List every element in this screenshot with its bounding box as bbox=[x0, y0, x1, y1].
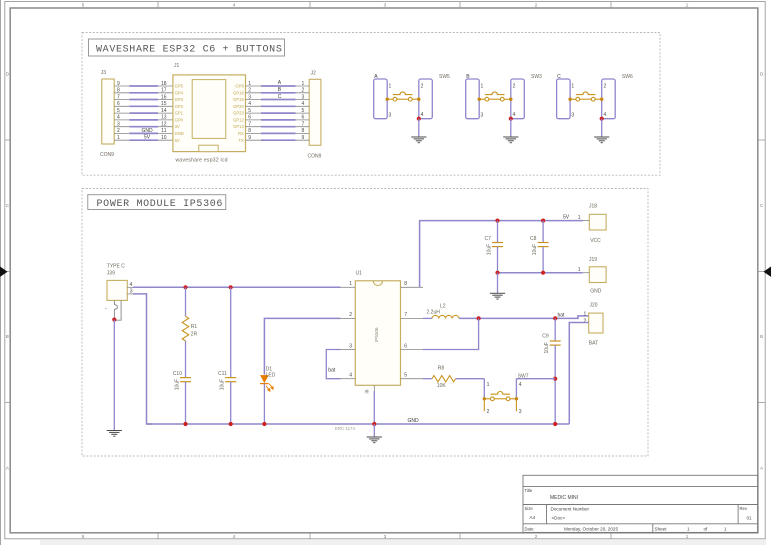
wire J1-7 to J2-7 bbox=[246, 122, 310, 128]
junction C11/GND rail bbox=[229, 422, 233, 426]
svg-text:2: 2 bbox=[487, 409, 490, 415]
svg-text:A: A bbox=[6, 465, 9, 470]
left centering mark bbox=[0, 267, 8, 277]
wire C7 branch bbox=[497, 221, 499, 243]
wire SW6 to ground bbox=[601, 119, 603, 137]
module J1 waveshare esp32 lcd bbox=[173, 63, 246, 164]
wire J3-4 to J1-13 bbox=[114, 115, 173, 121]
svg-text:10uF: 10uF bbox=[544, 342, 550, 353]
wire C8 branch bbox=[542, 221, 544, 243]
ground (SW3) bbox=[503, 137, 518, 143]
svg-text:J3: J3 bbox=[101, 70, 107, 76]
J1 right pin labels bbox=[233, 84, 244, 143]
svg-text:4: 4 bbox=[117, 115, 120, 121]
svg-text:10: 10 bbox=[161, 135, 167, 141]
svg-text:4: 4 bbox=[513, 112, 516, 118]
svg-text:11: 11 bbox=[161, 128, 166, 134]
svg-text:SW6: SW6 bbox=[622, 74, 633, 80]
wire bat to C9 bbox=[554, 318, 556, 341]
wire J3-3 to J1-12 bbox=[114, 122, 173, 128]
wire SW5 to ground bbox=[418, 119, 420, 137]
svg-text:SW5: SW5 bbox=[439, 74, 450, 80]
junction C8/cap rail bbox=[541, 271, 545, 275]
svg-text:Rev: Rev bbox=[740, 506, 748, 511]
junction top rail / R1 bbox=[183, 285, 187, 289]
svg-text:3: 3 bbox=[481, 112, 484, 118]
GND bottom rail bbox=[147, 423, 570, 425]
svg-text:5: 5 bbox=[248, 108, 251, 114]
title block bbox=[523, 475, 758, 532]
svg-text:Sheet: Sheet bbox=[655, 526, 668, 531]
wire D1 to GND rail bbox=[263, 384, 265, 424]
wire J3-9 to J1-18 bbox=[114, 81, 173, 87]
wire J3-5 to J1-14 bbox=[114, 108, 173, 114]
svg-text:1: 1 bbox=[117, 135, 120, 141]
svg-text:R1: R1 bbox=[191, 324, 198, 330]
svg-text:Date:: Date: bbox=[525, 526, 535, 531]
svg-text:1: 1 bbox=[487, 382, 490, 388]
wire C8 to cap rail bbox=[542, 247, 544, 273]
frame row letters bbox=[6, 72, 764, 471]
svg-text:3V: 3V bbox=[175, 124, 180, 129]
svg-text:2: 2 bbox=[349, 312, 352, 318]
svg-text:8: 8 bbox=[117, 88, 120, 94]
svg-text:9: 9 bbox=[248, 135, 251, 141]
svg-text:GP0: GP0 bbox=[175, 118, 184, 123]
svg-text:2: 2 bbox=[302, 88, 305, 94]
section 2 title box bbox=[88, 195, 226, 210]
svg-text:B: B bbox=[6, 334, 9, 339]
svg-text:8: 8 bbox=[404, 281, 407, 287]
wire C7 to cap rail bbox=[497, 247, 499, 273]
svg-text:ERC 1174: ERC 1174 bbox=[335, 426, 355, 431]
svg-text:1: 1 bbox=[248, 81, 251, 87]
svg-text:U1: U1 bbox=[356, 270, 363, 276]
wire J3-2 to J1-11 bbox=[114, 128, 173, 134]
wire C11 branch bbox=[230, 287, 232, 377]
wire J1-9 to J2-9 bbox=[246, 135, 310, 141]
wire J3-7 to J1-16 bbox=[114, 94, 173, 100]
svg-text:8: 8 bbox=[248, 128, 251, 134]
svg-text:4: 4 bbox=[248, 101, 251, 107]
svg-text:5: 5 bbox=[404, 373, 407, 379]
IC U1 IP5306 bbox=[341, 270, 423, 393]
svg-text:10uF: 10uF bbox=[486, 244, 492, 255]
svg-text:TYPE C: TYPE C bbox=[107, 263, 125, 269]
wire J3-8 to J1-17 bbox=[114, 88, 173, 94]
connector J39 TYPE C bbox=[104, 263, 133, 320]
svg-text:5V: 5V bbox=[563, 215, 570, 221]
svg-text:J20: J20 bbox=[590, 302, 598, 308]
connector J18 bbox=[578, 204, 606, 244]
svg-text:GP18: GP18 bbox=[233, 90, 244, 95]
wire cap rail to ground bbox=[497, 273, 499, 294]
svg-text:3: 3 bbox=[117, 122, 120, 128]
svg-text:L2: L2 bbox=[440, 303, 446, 309]
svg-text:6: 6 bbox=[248, 115, 251, 121]
wire GND rail stub to ground symbol bbox=[373, 424, 375, 437]
svg-text:6: 6 bbox=[404, 343, 407, 349]
junction bat/pin6 bbox=[477, 316, 481, 320]
section box: POWER MODULE IP5306 bbox=[82, 189, 648, 457]
svg-text:4: 4 bbox=[349, 373, 352, 379]
svg-text:10K: 10K bbox=[437, 383, 447, 389]
svg-text:1: 1 bbox=[687, 526, 690, 531]
resistor R1 bbox=[182, 316, 197, 341]
svg-text:GP2: GP2 bbox=[175, 104, 184, 109]
svg-text:2: 2 bbox=[604, 83, 607, 89]
wire J1-8 to J2-8 bbox=[246, 128, 310, 134]
svg-text:GND: GND bbox=[408, 418, 420, 424]
svg-text:5: 5 bbox=[302, 108, 305, 114]
svg-text:A4: A4 bbox=[530, 515, 536, 520]
section 1 title box bbox=[89, 39, 285, 56]
svg-text:17: 17 bbox=[161, 88, 167, 94]
svg-text:<Doc>: <Doc> bbox=[552, 515, 566, 520]
svg-text:C11: C11 bbox=[218, 371, 227, 377]
svg-text:GP20: GP20 bbox=[233, 104, 244, 109]
svg-text:10uF: 10uF bbox=[220, 379, 226, 390]
svg-text:Size: Size bbox=[525, 506, 534, 511]
svg-text:GP5: GP5 bbox=[175, 84, 184, 89]
ground (TYPE C) bbox=[107, 431, 122, 437]
svg-text:1: 1 bbox=[571, 83, 574, 89]
svg-text:2: 2 bbox=[248, 88, 251, 94]
svg-text:BAT: BAT bbox=[589, 341, 598, 347]
wire J1-2 to J2-2 bbox=[246, 88, 310, 94]
svg-text:9: 9 bbox=[117, 81, 120, 87]
pushbutton SW7 bbox=[483, 373, 529, 415]
svg-text:C8: C8 bbox=[530, 236, 537, 242]
svg-text:GND: GND bbox=[175, 131, 184, 136]
inductor L2 bbox=[427, 303, 460, 318]
svg-text:1: 1 bbox=[349, 281, 352, 287]
svg-text:D1: D1 bbox=[266, 366, 273, 372]
wire J1-1 to J2-1 bbox=[246, 81, 310, 87]
svg-text:GP1: GP1 bbox=[175, 111, 184, 116]
svg-text:1: 1 bbox=[578, 267, 581, 273]
svg-text:2: 2 bbox=[513, 83, 516, 89]
svg-text:3: 3 bbox=[248, 94, 251, 100]
wire U1-8 to 5V rail bbox=[420, 221, 583, 288]
svg-text:C10: C10 bbox=[173, 371, 182, 377]
frame column numbers bbox=[82, 3, 689, 539]
svg-text:2: 2 bbox=[117, 128, 120, 134]
svg-text:GP4: GP4 bbox=[175, 90, 184, 95]
capacitor C9 bbox=[542, 334, 560, 354]
svg-text:GP3: GP3 bbox=[175, 97, 184, 102]
junction C8/5V rail bbox=[541, 219, 545, 223]
svg-text:CON9: CON9 bbox=[100, 152, 114, 158]
wire C10 to GND rail bbox=[185, 382, 187, 424]
svg-text:10uF: 10uF bbox=[532, 244, 538, 255]
svg-text:7: 7 bbox=[302, 122, 305, 128]
ground (C7/C8) bbox=[490, 293, 505, 299]
svg-text:1: 1 bbox=[724, 526, 727, 531]
junction C7/cap rail bbox=[495, 271, 499, 275]
wire J1-5 to J2-5 bbox=[246, 108, 310, 114]
svg-text:Document Number: Document Number bbox=[551, 506, 590, 511]
svg-text:GND: GND bbox=[590, 289, 602, 295]
svg-text:GP13: GP13 bbox=[233, 124, 244, 129]
svg-text:4: 4 bbox=[519, 382, 522, 388]
connector J2 bbox=[309, 79, 321, 145]
wire J39-3 down to GND rail bbox=[133, 294, 152, 424]
junction C10/GND rail bbox=[183, 422, 187, 426]
wire R1 to C10 bbox=[185, 341, 187, 378]
svg-text:16: 16 bbox=[161, 94, 167, 100]
svg-text:CON9: CON9 bbox=[308, 154, 322, 160]
capacitor C11 bbox=[218, 371, 236, 390]
svg-text:LED: LED bbox=[266, 373, 276, 379]
svg-text:R8: R8 bbox=[438, 365, 445, 371]
svg-text:C: C bbox=[278, 94, 282, 100]
wire cap gnd rail to J19 bbox=[498, 272, 583, 274]
svg-text:GP12: GP12 bbox=[233, 118, 244, 123]
svg-text:01: 01 bbox=[747, 516, 753, 521]
svg-text:9: 9 bbox=[302, 135, 305, 141]
wire U1-3/4 bat loop bbox=[326, 350, 340, 379]
wire J1-6 to J2-6 bbox=[246, 115, 310, 121]
ground (U1) bbox=[367, 437, 382, 443]
svg-text:J19: J19 bbox=[589, 257, 597, 263]
wire R1 branch bbox=[185, 287, 187, 316]
svg-text:A: A bbox=[760, 465, 763, 470]
svg-text:GP19: GP19 bbox=[233, 97, 244, 102]
wire U1 in-pin to GND rail bbox=[373, 391, 375, 424]
svg-text:bat: bat bbox=[328, 367, 336, 373]
junction J39 shield bbox=[112, 318, 116, 322]
svg-text:Title: Title bbox=[525, 488, 533, 493]
wire J39 shield to ground bbox=[113, 320, 115, 431]
svg-text:5V: 5V bbox=[175, 138, 180, 143]
svg-text:VCC: VCC bbox=[590, 238, 601, 244]
svg-text:Monday, October 20, 2025: Monday, October 20, 2025 bbox=[564, 526, 618, 531]
svg-text:13: 13 bbox=[161, 115, 167, 121]
capacitor C7 bbox=[485, 236, 504, 255]
svg-text:4: 4 bbox=[421, 112, 424, 118]
svg-text:2: 2 bbox=[584, 318, 587, 324]
svg-text:12: 12 bbox=[161, 122, 167, 128]
svg-text:C7: C7 bbox=[485, 236, 492, 242]
svg-text:GP23: GP23 bbox=[233, 111, 244, 116]
pushbutton SW5 (net A) bbox=[374, 74, 450, 119]
wire R8 to SW7 bbox=[456, 378, 485, 380]
svg-text:MEDIC MINI: MEDIC MINI bbox=[550, 495, 578, 501]
svg-text:1: 1 bbox=[389, 83, 392, 89]
junction SW5 pin4 bbox=[417, 117, 421, 121]
svg-text:2: 2 bbox=[421, 83, 424, 89]
svg-text:5V: 5V bbox=[144, 135, 151, 141]
connector J19 bbox=[578, 257, 606, 295]
svg-text:4: 4 bbox=[302, 101, 305, 107]
wire J1-3 to J2-3 bbox=[246, 94, 310, 100]
svg-text:6: 6 bbox=[302, 115, 305, 121]
svg-text:7: 7 bbox=[404, 312, 407, 318]
pushbutton SW3 (net B) bbox=[466, 74, 542, 119]
connector J3 bbox=[102, 79, 114, 144]
wire J3-1 to J1-10 bbox=[114, 135, 173, 141]
svg-text:8: 8 bbox=[302, 128, 305, 134]
svg-text:3: 3 bbox=[302, 94, 305, 100]
wire U1-7 to L2 bbox=[423, 317, 432, 319]
capacitor C8 bbox=[530, 236, 549, 255]
svg-text:3: 3 bbox=[519, 409, 522, 415]
svg-text:7: 7 bbox=[117, 94, 120, 100]
junction D1/GND rail bbox=[262, 422, 266, 426]
resistor R8 bbox=[432, 365, 456, 389]
svg-text:1: 1 bbox=[302, 81, 305, 87]
ground (SW6) bbox=[594, 137, 609, 143]
section box: WAVESHARE ESP32 C6 + BUTTONS bbox=[82, 33, 660, 176]
junction C9/SW7 bbox=[553, 377, 557, 381]
wire C11 to GND rail bbox=[230, 382, 232, 424]
wire L2 to J20 (bat net) bbox=[459, 316, 589, 319]
wire J1-4 to J2-4 bbox=[246, 101, 310, 107]
svg-text:6: 6 bbox=[117, 101, 120, 107]
right centering mark bbox=[764, 267, 771, 277]
svg-text:TX: TX bbox=[238, 138, 244, 143]
wire C9 down to SW7 junction bbox=[554, 345, 556, 424]
svg-text:GND: GND bbox=[142, 128, 154, 134]
J1 left pin labels bbox=[175, 84, 184, 143]
svg-text:B: B bbox=[760, 334, 763, 339]
wire U1-5 to R8 bbox=[423, 378, 432, 380]
svg-text:14: 14 bbox=[161, 108, 167, 114]
junction top rail / C11 bbox=[229, 285, 233, 289]
svg-text:J1: J1 bbox=[174, 63, 180, 69]
svg-text:C9: C9 bbox=[542, 334, 549, 340]
wire J20-2 return to GND rail bbox=[569, 323, 588, 425]
svg-text:3: 3 bbox=[349, 343, 352, 349]
svg-text:18: 18 bbox=[161, 81, 167, 87]
svg-text:7: 7 bbox=[248, 122, 251, 128]
svg-text:GP8: GP8 bbox=[235, 84, 244, 89]
svg-text:IP5306: IP5306 bbox=[374, 327, 379, 342]
capacitor C10 bbox=[173, 371, 191, 390]
junction SW3 pin4 bbox=[509, 117, 513, 121]
junction U1/GND rail bbox=[372, 422, 376, 426]
junction C9/GND rail bbox=[553, 422, 557, 426]
svg-text:J39: J39 bbox=[107, 270, 115, 276]
svg-text:bat: bat bbox=[558, 312, 566, 318]
junction C7/5V rail bbox=[495, 219, 499, 223]
svg-text:POWER MODULE IP5306: POWER MODULE IP5306 bbox=[97, 199, 224, 210]
svg-text:15: 15 bbox=[161, 101, 167, 107]
page bottom shading bbox=[40, 540, 766, 545]
svg-text:1: 1 bbox=[578, 215, 581, 221]
wire U1-6 up to bat bbox=[423, 318, 479, 349]
svg-text:5: 5 bbox=[117, 108, 120, 114]
svg-text:3: 3 bbox=[130, 288, 133, 294]
svg-text:1: 1 bbox=[481, 83, 484, 89]
wire J3-6 to J1-15 bbox=[114, 101, 173, 107]
svg-text:WAVESHARE ESP32 C6 + BUTTONS: WAVESHARE ESP32 C6 + BUTTONS bbox=[96, 45, 283, 56]
svg-text:10uF: 10uF bbox=[174, 379, 180, 390]
junction SW6 pin4 bbox=[600, 117, 604, 121]
svg-text:3: 3 bbox=[571, 112, 574, 118]
wire U1-2 to D1 bbox=[264, 318, 340, 374]
svg-text:2R: 2R bbox=[191, 332, 198, 338]
svg-text:2.2uH: 2.2uH bbox=[427, 310, 441, 316]
wire SW7-4 to C9 line bbox=[516, 378, 555, 380]
svg-text:waveshare esp32 lcd: waveshare esp32 lcd bbox=[176, 158, 228, 164]
ground (SW5) bbox=[411, 137, 426, 143]
svg-text:RX: RX bbox=[238, 131, 244, 136]
svg-text:SW3: SW3 bbox=[531, 74, 542, 80]
svg-text:4: 4 bbox=[604, 112, 607, 118]
svg-text:3: 3 bbox=[389, 112, 392, 118]
wire SW3 to ground bbox=[510, 119, 512, 137]
svg-text:1: 1 bbox=[584, 311, 587, 317]
svg-text:←: ← bbox=[104, 306, 109, 312]
svg-text:J18: J18 bbox=[589, 204, 597, 210]
svg-text:in: in bbox=[364, 389, 370, 393]
LED D1 bbox=[260, 366, 276, 391]
junction bat/C9 bbox=[553, 316, 557, 320]
connector J20 bbox=[584, 302, 603, 346]
wire 5V rail J39-4 to U1-1 bbox=[133, 286, 341, 288]
svg-text:J2: J2 bbox=[311, 71, 317, 77]
pushbutton SW6 (net C) bbox=[557, 74, 633, 119]
